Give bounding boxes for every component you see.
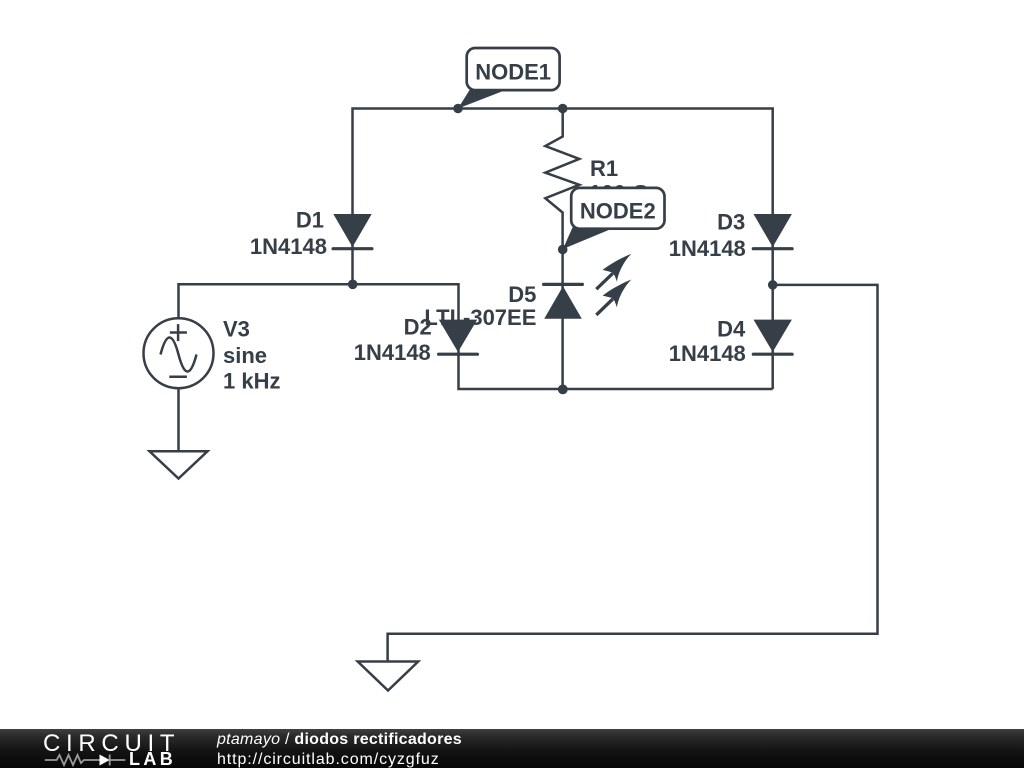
svg-text:LAB: LAB	[129, 749, 176, 768]
svg-text:D5: D5	[508, 282, 536, 307]
svg-text:LTL-307EE: LTL-307EE	[424, 305, 536, 330]
svg-text:1 kHz: 1 kHz	[223, 368, 280, 393]
svg-text:1N4148: 1N4148	[250, 234, 327, 259]
svg-text:R1: R1	[590, 156, 618, 181]
svg-text:1N4148: 1N4148	[669, 236, 746, 261]
svg-text:D4: D4	[717, 317, 746, 342]
svg-text:sine: sine	[223, 343, 267, 368]
svg-text:1N4148: 1N4148	[669, 341, 746, 366]
svg-text:NODE2: NODE2	[580, 199, 656, 224]
svg-text:D1: D1	[296, 208, 324, 233]
svg-text:V3: V3	[223, 317, 250, 342]
svg-text:1N4148: 1N4148	[354, 340, 431, 365]
svg-text:NODE1: NODE1	[475, 60, 551, 85]
svg-text:D3: D3	[717, 210, 745, 235]
